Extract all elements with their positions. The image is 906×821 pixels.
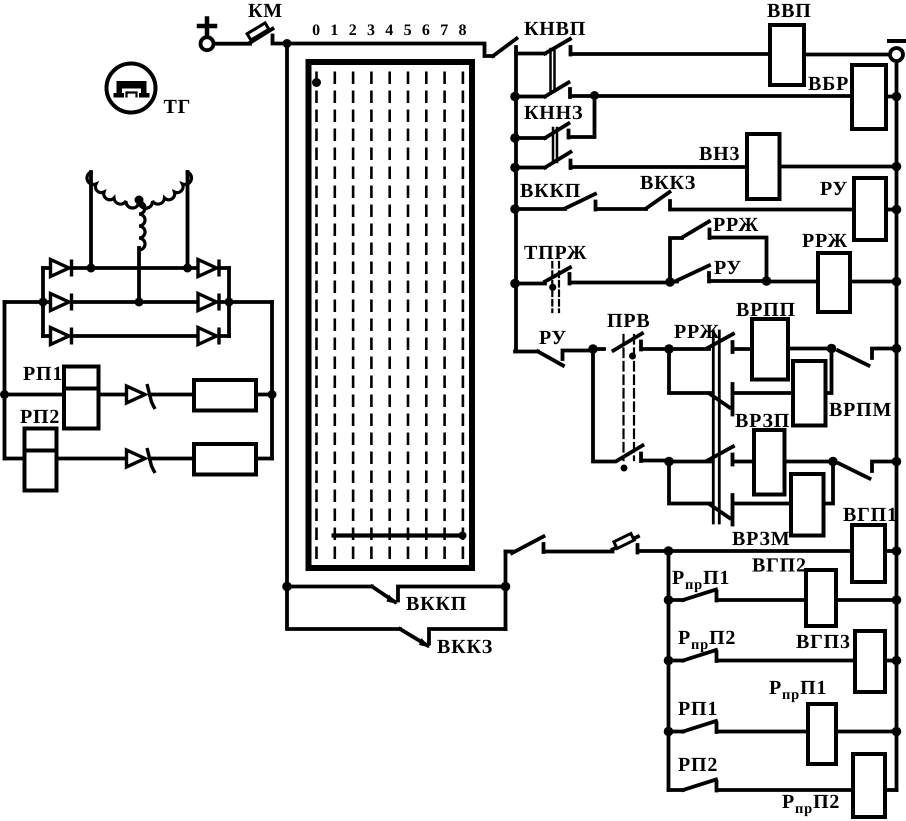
svg-text:КННЗ: КННЗ bbox=[524, 102, 583, 124]
svg-text:ВККП: ВККП bbox=[520, 180, 581, 202]
svg-text:ВГП2: ВГП2 bbox=[752, 555, 807, 577]
svg-text:ВРПП: ВРПП bbox=[736, 299, 796, 321]
svg-text:РУ: РУ bbox=[539, 327, 567, 349]
svg-text:ТГ: ТГ bbox=[164, 96, 192, 118]
svg-text:6: 6 bbox=[422, 22, 431, 39]
svg-text:РП2: РП2 bbox=[20, 406, 60, 428]
svg-text:ВРПМ: ВРПМ bbox=[829, 399, 892, 421]
svg-text:РРЖ: РРЖ bbox=[802, 230, 848, 252]
svg-text:РУ: РУ bbox=[820, 178, 848, 200]
svg-text:КНВП: КНВП bbox=[524, 18, 586, 40]
svg-text:ВН3: ВН3 bbox=[699, 143, 740, 165]
svg-text:РП1: РП1 bbox=[23, 363, 63, 385]
svg-text:ВГП3: ВГП3 bbox=[796, 631, 851, 653]
svg-text:ТПРЖ: ТПРЖ bbox=[524, 242, 587, 264]
svg-text:КМ: КМ bbox=[248, 0, 283, 22]
svg-text:ВБР: ВБР bbox=[808, 73, 849, 95]
svg-text:ВККЗ: ВККЗ bbox=[640, 172, 696, 194]
svg-text:ВГП1: ВГП1 bbox=[843, 504, 898, 526]
svg-text:РРЖ: РРЖ bbox=[713, 214, 759, 236]
svg-text:ВРЗМ: ВРЗМ bbox=[732, 528, 790, 550]
svg-text:РП1: РП1 bbox=[678, 698, 718, 720]
svg-text:РП2: РП2 bbox=[678, 754, 718, 776]
svg-text:ВРЗП: ВРЗП bbox=[735, 410, 790, 432]
svg-text:РУ: РУ bbox=[714, 257, 742, 279]
svg-text:ВВП: ВВП bbox=[767, 0, 812, 22]
svg-text:8: 8 bbox=[458, 22, 467, 39]
svg-text:7: 7 bbox=[440, 22, 449, 39]
svg-text:ВККЗ: ВККЗ bbox=[437, 636, 493, 658]
svg-text:3: 3 bbox=[367, 22, 376, 39]
svg-text:РРЖ: РРЖ bbox=[674, 321, 720, 343]
svg-text:2: 2 bbox=[349, 22, 358, 39]
svg-text:5: 5 bbox=[404, 22, 413, 39]
svg-text:ВККП: ВККП bbox=[406, 593, 467, 615]
svg-text:1: 1 bbox=[330, 22, 339, 39]
svg-text:ПРВ: ПРВ bbox=[607, 310, 651, 332]
svg-text:0: 0 bbox=[312, 22, 321, 39]
svg-text:4: 4 bbox=[385, 22, 394, 39]
